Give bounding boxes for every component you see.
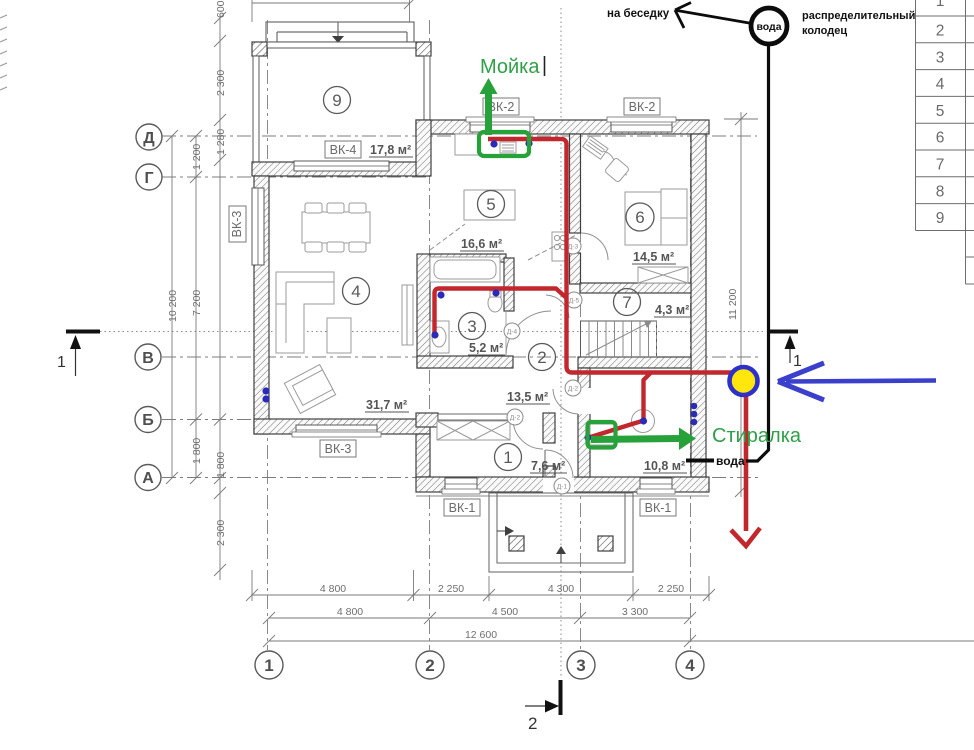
porch post left <box>509 536 524 551</box>
svg-text:2: 2 <box>537 348 546 367</box>
kitchen/room6 wall <box>570 134 581 233</box>
bottom dimension row 2 <box>263 612 696 624</box>
green up arrow to Moyka <box>480 78 498 135</box>
window VK-4 in that wall <box>294 161 389 171</box>
bed room 6 <box>625 192 687 245</box>
door arcs <box>430 224 608 478</box>
room 9 right wall <box>424 56 430 120</box>
axis circles left (Д Г В Б А) <box>135 124 162 491</box>
svg-text:4 800: 4 800 <box>337 606 363 618</box>
svg-text:3: 3 <box>936 49 945 66</box>
red pipe down from distribution point with arrow <box>744 390 749 531</box>
wall room6/room7 <box>580 283 691 293</box>
front door <box>545 450 573 478</box>
window VK-1 right <box>640 478 672 491</box>
dining table room 4 <box>302 212 370 243</box>
bottom axis circles 1-4 <box>255 651 704 679</box>
axis V horizontal <box>162 356 762 358</box>
svg-text:11 200: 11 200 <box>727 289 739 320</box>
svg-text:8: 8 <box>936 183 945 200</box>
room number circles <box>324 87 655 471</box>
top mini dimension line <box>252 0 416 22</box>
svg-text:2: 2 <box>528 714 537 733</box>
axis 1 vertical <box>267 20 269 650</box>
wardrobe room 1 crossed <box>437 421 510 440</box>
bathroom left wall <box>417 254 430 368</box>
svg-text:вода: вода <box>756 21 781 33</box>
svg-text:2 250: 2 250 <box>658 583 684 595</box>
svg-text:на беседку: на беседку <box>607 8 670 20</box>
svg-text:2 300: 2 300 <box>215 520 227 546</box>
svg-text:4 300: 4 300 <box>548 583 574 595</box>
section line 2-2 dotted vertical <box>560 8 562 678</box>
red pipe bathroom branch <box>435 289 567 337</box>
red pipe washer diagonal <box>589 421 644 438</box>
yellow distribution point with blue ring <box>730 367 758 395</box>
svg-text:Г: Г <box>144 170 153 187</box>
text cursor after Moyka <box>544 56 546 76</box>
left dimension line 7200 <box>190 130 202 484</box>
washroom left wall <box>578 368 590 477</box>
big blue arrow <box>786 381 936 382</box>
svg-text:1: 1 <box>503 448 512 467</box>
axis D horizontal <box>162 135 757 137</box>
svg-text:В: В <box>142 350 154 367</box>
red pipe washroom branch down <box>644 373 652 421</box>
svg-text:7: 7 <box>622 293 631 312</box>
sofa room 4 <box>276 272 334 353</box>
svg-text:ВК-3: ВК-3 <box>325 442 352 456</box>
svg-text:4: 4 <box>685 656 695 675</box>
bottom dimension row 3 <box>263 635 974 647</box>
wardrobe room 6 crossed <box>638 267 688 283</box>
svg-text:2 250: 2 250 <box>438 583 464 595</box>
kitchen/hall dashed divider <box>528 234 578 260</box>
svg-text:распределительный: распределительный <box>802 10 915 22</box>
svg-text:4 800: 4 800 <box>320 583 346 595</box>
bath tub <box>430 257 500 282</box>
black water pipe from well <box>746 43 769 461</box>
room 9 left wall <box>253 56 259 162</box>
axis 4 vertical <box>690 128 692 650</box>
bottom outer wall (axis A) <box>416 477 709 492</box>
stairs <box>581 321 657 357</box>
svg-text:7 200: 7 200 <box>191 290 203 316</box>
chair room 6 <box>604 157 629 182</box>
svg-text:Д-2: Д-2 <box>510 415 521 422</box>
axis 3 vertical <box>580 128 582 650</box>
window VK-1 left <box>445 478 477 491</box>
blue connection dots <box>262 140 697 441</box>
stove <box>552 232 568 261</box>
desk room 6 <box>583 136 608 159</box>
svg-text:ВК-3: ВК-3 <box>230 211 244 238</box>
left page-edge tick marks <box>0 15 7 90</box>
corner column left of top wall <box>416 120 431 176</box>
svg-text:2: 2 <box>936 23 945 40</box>
porch post right <box>598 536 613 551</box>
svg-text:6: 6 <box>635 208 644 227</box>
axis 2 vertical <box>429 20 431 650</box>
svg-text:7: 7 <box>936 157 945 174</box>
svg-text:1: 1 <box>57 354 66 371</box>
svg-text:1 280: 1 280 <box>215 129 227 155</box>
bathroom top wall <box>430 254 506 262</box>
svg-text:3 300: 3 300 <box>622 606 648 618</box>
svg-text:1: 1 <box>793 353 802 370</box>
bottom dimension row 1 <box>246 570 715 601</box>
svg-text:14,5 м²: 14,5 м² <box>633 250 674 264</box>
front door gap <box>543 476 574 493</box>
bathroom bottom wall <box>417 356 513 368</box>
door tag circles <box>504 238 582 494</box>
window VK-3 bottom <box>296 425 377 436</box>
VK window labels <box>229 98 676 516</box>
room 6 door <box>581 233 608 260</box>
svg-text:600: 600 <box>215 0 227 18</box>
svg-text:4: 4 <box>936 76 945 93</box>
axis G horizontal <box>162 176 430 178</box>
svg-text:4,3 м²: 4,3 м² <box>655 303 689 317</box>
red pipe main run: sink -> down -> right to distribution point <box>488 139 740 373</box>
room 9 top wall <box>253 42 431 48</box>
green sink highlight box <box>479 132 529 156</box>
step wall down from axis B to A <box>416 434 430 477</box>
section marker 1 right <box>767 330 802 371</box>
bottom dimension labels <box>320 583 684 641</box>
svg-text:16,6 м²: 16,6 м² <box>461 237 502 251</box>
svg-text:Д-1: Д-1 <box>557 484 568 491</box>
toilet <box>488 294 502 312</box>
svg-text:1 800: 1 800 <box>191 438 203 464</box>
svg-text:Д: Д <box>143 130 155 147</box>
bathroom door <box>506 311 551 355</box>
svg-text:4 500: 4 500 <box>492 606 518 618</box>
svg-text:вода: вода <box>716 454 745 468</box>
svg-text:3: 3 <box>467 317 476 336</box>
room1 door <box>513 420 543 449</box>
svg-text:Б: Б <box>142 412 154 429</box>
svg-text:Д-3: Д-3 <box>568 244 579 251</box>
window VK-2 kitchen <box>470 118 530 132</box>
svg-text:6: 6 <box>936 130 945 147</box>
wall stairs/washroom <box>578 357 691 368</box>
balcony rail top of room 9 <box>266 22 414 42</box>
bathroom right wall <box>504 258 514 311</box>
svg-text:ВК-4: ВК-4 <box>330 143 357 157</box>
green washer highlight box <box>588 422 616 448</box>
window VK-3 left <box>252 188 264 265</box>
svg-text:2 300: 2 300 <box>215 70 227 96</box>
svg-text:9: 9 <box>936 210 945 227</box>
arrow to gazebo <box>677 11 752 24</box>
black water stub + label (voda) <box>686 459 714 463</box>
TV stand room 4 <box>402 285 413 345</box>
svg-text:5: 5 <box>936 103 945 120</box>
room1/hall wall lower piece <box>543 466 555 477</box>
svg-text:9: 9 <box>332 91 341 110</box>
svg-text:А: А <box>142 470 154 487</box>
svg-text:31,7 м²: 31,7 м² <box>366 398 407 412</box>
section marker 1 left <box>57 330 100 377</box>
kitchen island <box>464 190 515 220</box>
svg-text:Д-4: Д-4 <box>507 329 518 336</box>
svg-text:5,2 м²: 5,2 м² <box>469 341 503 355</box>
window VK-2 room6 <box>611 118 672 132</box>
svg-text:10 200: 10 200 <box>167 290 179 322</box>
top wall of main house <box>416 120 709 134</box>
section marker 2 bottom <box>525 680 563 733</box>
axis grid dash-dot lines <box>162 20 762 650</box>
washing machine <box>590 424 614 445</box>
svg-text:4: 4 <box>351 282 360 301</box>
left outer wall <box>254 176 269 434</box>
wall piece hall/stairs <box>570 253 581 284</box>
svg-text:1: 1 <box>264 656 273 675</box>
svg-text:ВК-1: ВК-1 <box>449 501 476 515</box>
svg-text:2: 2 <box>425 656 434 675</box>
wall room9/room4 (axis G area) <box>252 162 430 176</box>
svg-text:Мойка: Мойка <box>480 56 540 78</box>
svg-text:1: 1 <box>936 0 945 10</box>
boiler circle washroom <box>632 410 655 433</box>
svg-text:колодец: колодец <box>802 25 847 37</box>
right dimension line 11200 <box>724 112 758 497</box>
green right arrow to Stiralka <box>591 428 696 451</box>
svg-text:ВК-1: ВК-1 <box>645 501 672 515</box>
room1 top wall piece <box>416 413 438 427</box>
bottom wall living room (axis B) <box>254 419 430 434</box>
svg-text:13,5 м²: 13,5 м² <box>507 390 548 404</box>
room1/hall wall upper piece <box>543 413 555 443</box>
room 9 corner blocks <box>252 42 267 56</box>
svg-text:Д-5: Д-5 <box>569 298 580 305</box>
svg-text:17,8 м²: 17,8 м² <box>370 143 411 157</box>
porch step arrows <box>497 530 505 532</box>
left rotated dimension labels <box>167 0 739 546</box>
axis B horizontal <box>162 419 433 421</box>
svg-text:1 200: 1 200 <box>191 144 203 170</box>
svg-text:1 800: 1 800 <box>215 452 227 478</box>
svg-text:12 600: 12 600 <box>465 629 497 641</box>
left dimension line 10200 <box>166 130 178 484</box>
left dimension line 8200 <box>214 12 226 580</box>
armchair room 4 rotated <box>284 365 335 414</box>
washroom door <box>553 389 578 414</box>
svg-text:7,6 м²: 7,6 м² <box>531 459 565 473</box>
svg-text:10,8 м²: 10,8 м² <box>644 459 685 473</box>
svg-text:Д-2: Д-2 <box>568 386 579 393</box>
svg-text:ВК-2: ВК-2 <box>629 100 656 114</box>
svg-text:5: 5 <box>486 195 495 214</box>
room 7 door <box>546 295 569 318</box>
washbasin bathroom <box>430 321 449 353</box>
svg-text:Стиралка: Стиралка <box>712 425 802 447</box>
svg-text:3: 3 <box>576 656 585 675</box>
right outer wall <box>691 134 706 477</box>
counter under kitchen window <box>455 134 530 155</box>
section line 1-1 dotted horizontal <box>100 331 766 333</box>
area labels <box>366 143 689 473</box>
water well circle (voda) <box>751 8 787 44</box>
axis A horizontal <box>162 477 762 479</box>
